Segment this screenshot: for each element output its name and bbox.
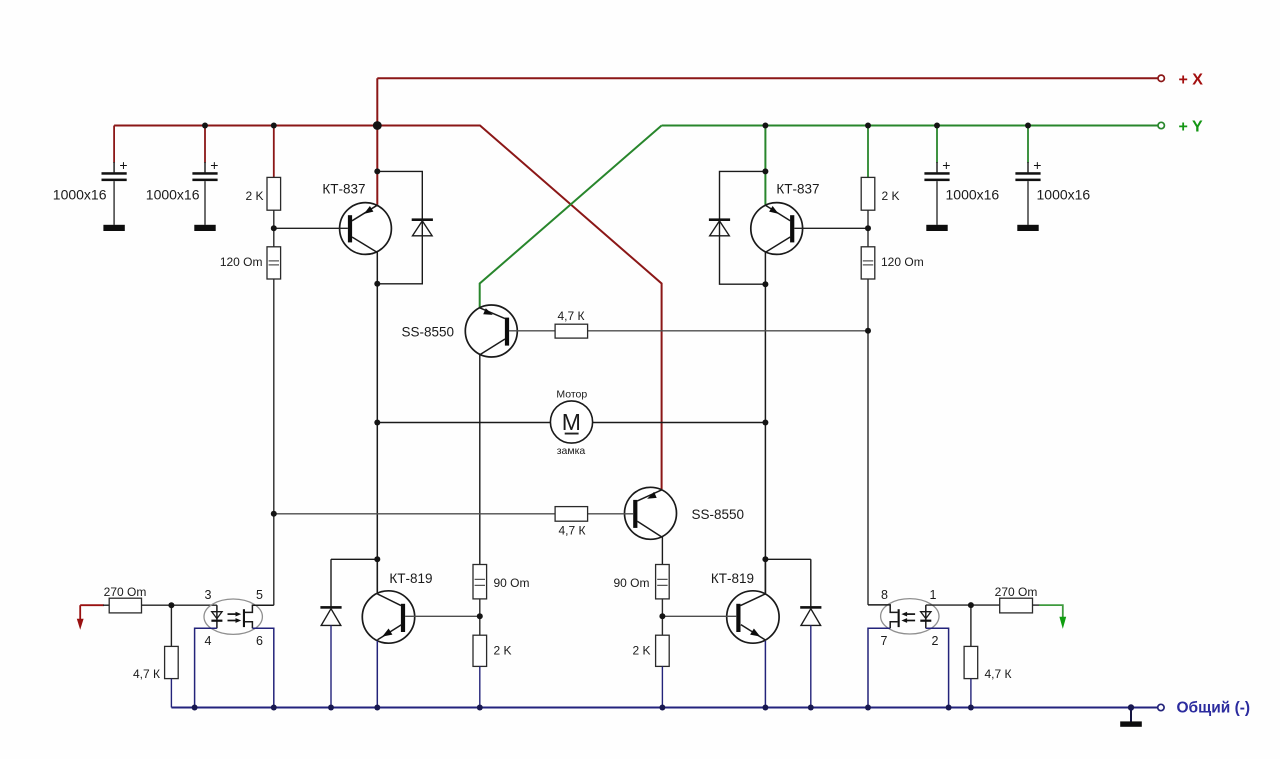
transistor Q6 KT-819 right (NPN, base left) (711, 571, 779, 643)
svg-text:4,7 К: 4,7 К (133, 667, 160, 681)
wire Q6 emitter to bus (764, 641, 766, 708)
wire Q4 base node (274, 513, 633, 515)
transistor Q5 KT-819 left (NPN, base right) (362, 571, 432, 643)
ground symbol main (1130, 708, 1132, 722)
node Q6 base (659, 613, 665, 619)
node Q5 base (477, 613, 483, 619)
node D2 bottom (762, 281, 768, 287)
svg-text:+: + (119, 157, 127, 173)
node C2/rail (202, 123, 208, 129)
motor M1 (550, 389, 592, 458)
svg-text:Мотор: Мотор (556, 389, 587, 401)
node D3/Q5 collector (374, 556, 380, 562)
capacitor C1 1000x16 (53, 157, 128, 225)
resistor R10 2 K bottom right (632, 635, 669, 666)
wire Q5 emitter to bus (376, 641, 378, 708)
svg-text:5: 5 (256, 588, 263, 602)
wire diode D1 loop (377, 171, 422, 283)
wire capacitor C1 riser (113, 126, 115, 164)
wire main right vertical (Q2 collector to Q6 collector) (764, 252, 766, 594)
resistor R8 90 Om right (613, 565, 669, 599)
U2 pin 8 (868, 605, 898, 613)
node C3/rail (934, 123, 940, 129)
wire motor node (377, 422, 765, 424)
U1 pin 4 (195, 628, 217, 707)
resistor R7 90 Om left (473, 565, 530, 599)
resistor R1 2K left (245, 177, 280, 210)
node D4/Q6 collector (762, 556, 768, 562)
svg-text:1: 1 (930, 588, 937, 602)
wire R12 stub (1033, 604, 1040, 606)
wire left supply rail (dark red) with diagonal to Q4 emitter (114, 126, 662, 490)
svg-text:7: 7 (881, 634, 888, 648)
wire +Y rail (green) with diagonal to Q3 emitter (480, 126, 1158, 308)
svg-text:+ X: + X (1179, 72, 1204, 89)
resistor R9 2 K bottom left (473, 635, 512, 666)
wire D3 to bus (330, 625, 332, 707)
wire R7 to Q5 base node (479, 599, 481, 635)
wire U2 pin1 to R12 (971, 604, 1000, 606)
svg-text:SS-8550: SS-8550 (401, 325, 454, 340)
U2 pin 7 (890, 622, 897, 629)
U2 light arrows (907, 613, 916, 615)
wire D4 to bus (810, 625, 812, 707)
svg-text:2 K: 2 K (494, 644, 512, 658)
wire Q4 collector riser (661, 537, 663, 565)
wire Q2 emitter riser (green) (764, 126, 766, 205)
wire Q6 base (662, 615, 736, 617)
diode D2 (709, 218, 730, 235)
svg-text:120 Om: 120 Om (881, 255, 924, 269)
svg-text:4,7 К: 4,7 К (558, 524, 585, 538)
node R2/rail (865, 123, 871, 129)
svg-text:270 Om: 270 Om (995, 585, 1038, 599)
node D2 top (762, 168, 768, 174)
wire main left vertical (Q1 collector to Q5 collector) (376, 252, 378, 594)
wire capacitor C3 riser (936, 126, 938, 164)
node D1 bottom (374, 281, 380, 287)
node motor left (374, 420, 380, 426)
terminal +Y (1158, 122, 1164, 128)
capacitor C4 1000x16 (1015, 157, 1090, 225)
resistor R6 4,7 K (to Q4 base) (555, 507, 588, 538)
wire R11 to optocoupler U1 pin3 (142, 604, 217, 606)
node R11/R13 (168, 602, 174, 608)
svg-text:2 K: 2 K (882, 189, 900, 203)
resistor R13 4,7 K bottom left (133, 646, 178, 681)
wire +X rail (377, 77, 1158, 79)
U1 light arrows (228, 613, 237, 615)
junction node dots (168, 121, 1031, 619)
input X arrow (dark red) (79, 605, 81, 620)
U1 phototransistor (243, 609, 245, 627)
transistor Q4 SS-8550 right (PNP, mirrored) (625, 487, 745, 539)
svg-text:4,7 К: 4,7 К (985, 667, 1012, 681)
svg-text:M: M (562, 409, 581, 435)
node R12/R14 (968, 602, 974, 608)
resistor R11 270 Om left (104, 585, 147, 613)
capacitor C2 1000x16 (146, 157, 219, 225)
resistor R12 270 Om right (995, 585, 1038, 613)
U2 phototransistor (898, 609, 900, 627)
wire node to resistor R13 (170, 605, 172, 646)
capacitor C3 1000x16 (924, 157, 999, 225)
svg-text:КТ-819: КТ-819 (389, 571, 432, 586)
ground bus (Общий) (171, 707, 1157, 709)
node D1 top (374, 168, 380, 174)
svg-text:4: 4 (205, 634, 212, 648)
optocoupler U2 (868, 588, 971, 708)
node Q2 riser/rail (762, 123, 768, 129)
svg-text:4,7 К: 4,7 К (557, 309, 584, 323)
svg-text:+: + (1033, 157, 1041, 173)
svg-text:1000x16: 1000x16 (946, 187, 1000, 203)
wire Q6 collector riser (764, 559, 766, 594)
svg-text:+ Y: + Y (1179, 119, 1204, 136)
wire resistor R2 riser (2K right, green) (867, 126, 869, 178)
ground C2 (194, 225, 215, 231)
svg-text:КТ-837: КТ-837 (776, 182, 819, 197)
svg-text:+: + (210, 157, 218, 173)
node R1/rail (271, 123, 277, 129)
svg-text:замка: замка (557, 445, 586, 457)
ground bus junction dots (192, 704, 1135, 710)
resistor R14 4,7 K bottom right (964, 646, 1011, 681)
node Q4 base chain (271, 511, 277, 517)
wire +X riser to Q1 emitter (376, 78, 378, 205)
node Q1 base divider (271, 225, 277, 231)
node C4/rail (1025, 123, 1031, 129)
node motor right (762, 420, 768, 426)
U1 pin 5 (245, 605, 274, 612)
node +X riser/rail (large) (373, 121, 382, 130)
wire input X to R11 (80, 604, 104, 606)
ground C3 (926, 225, 947, 231)
terminal +X (1158, 75, 1164, 81)
wire Q5 base (405, 615, 480, 617)
wire Q5 collector riser (376, 559, 378, 594)
wire diode D3 link (331, 559, 377, 607)
diode D4 (800, 606, 821, 625)
wire Q1 base (274, 227, 348, 229)
diode D3 (320, 606, 341, 625)
svg-text:1000x16: 1000x16 (146, 187, 200, 203)
output Y arrow (green) (1039, 605, 1063, 618)
svg-text:SS-8550: SS-8550 (692, 507, 745, 522)
U1 LED (216, 605, 218, 628)
ground C1 (103, 225, 124, 231)
wire R8 to Q6 base node (661, 599, 663, 635)
wire resistor R1 riser (2K left) (273, 126, 275, 178)
svg-text:90 Om: 90 Om (494, 576, 530, 590)
wire diode D4 link (765, 559, 810, 607)
svg-text:6: 6 (256, 634, 263, 648)
svg-text:90 Om: 90 Om (613, 576, 649, 590)
diode D1 (412, 218, 433, 235)
U2 pin 1 (926, 604, 971, 606)
svg-text:Общий (-): Общий (-) (1177, 700, 1251, 717)
ground C4 (1017, 225, 1038, 231)
resistor R4 120 Om right (861, 247, 923, 279)
resistor R3 120 Om left (220, 247, 281, 279)
U1 pin 6 (245, 622, 252, 629)
transistor Q2 KT-837 right (PNP, mirrored) (751, 182, 820, 255)
svg-text:2 K: 2 K (245, 189, 263, 203)
svg-text:8: 8 (881, 588, 888, 602)
optocoupler U1 (195, 588, 274, 708)
wire R9 to bus (479, 666, 481, 707)
svg-text:2 K: 2 K (632, 644, 650, 658)
svg-text:120 Om: 120 Om (220, 255, 263, 269)
svg-text:КТ-819: КТ-819 (711, 571, 754, 586)
svg-text:КТ-837: КТ-837 (322, 182, 365, 197)
wire diode D2 loop (720, 171, 766, 284)
node Q2 base divider (865, 225, 871, 231)
terminal Общий (-) (1158, 704, 1164, 710)
wire left chain riser to optocoupler pin5 (273, 279, 275, 605)
wire capacitor C2 riser (204, 126, 206, 164)
svg-text:1000x16: 1000x16 (53, 187, 107, 203)
wire R2-R4 link (867, 210, 869, 247)
wire Q3 base to right chain (509, 330, 868, 332)
svg-text:+: + (942, 157, 950, 173)
wire capacitor C4 riser (1027, 126, 1029, 164)
U2 pin 2 (926, 628, 949, 707)
svg-text:2: 2 (932, 634, 939, 648)
resistor R5 4,7 K (to Q3 base) (555, 309, 588, 338)
transistor Q3 SS-8550 left (PNP) (401, 305, 517, 357)
wire node to resistor R14 (970, 605, 972, 646)
svg-text:3: 3 (205, 588, 212, 602)
wire R10 to bus (661, 666, 663, 707)
wire R14 to bus (970, 679, 972, 708)
U2 LED (925, 605, 927, 628)
svg-text:270 Om: 270 Om (104, 585, 147, 599)
wire Q3 collector riser (479, 355, 481, 565)
node Q3 base chain (865, 328, 871, 334)
transistor Q1 KT-837 left (PNP) (322, 182, 391, 255)
wire Q2 base (794, 227, 868, 229)
wire R13 to bus (170, 679, 172, 708)
svg-text:1000x16: 1000x16 (1037, 187, 1091, 203)
wire right chain riser to optocoupler pin8 (867, 279, 869, 605)
resistor R2 2K right (861, 177, 899, 210)
wire R1-R3 link (273, 210, 275, 247)
